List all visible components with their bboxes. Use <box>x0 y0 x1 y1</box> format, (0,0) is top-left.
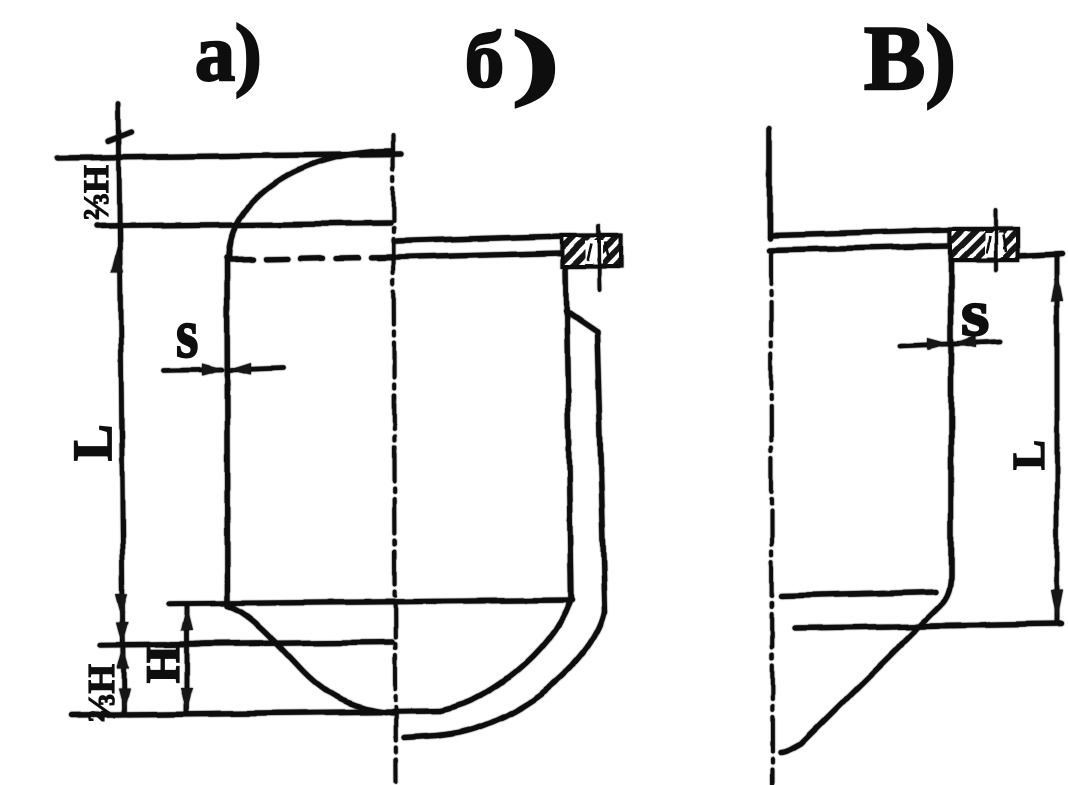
svg-text:б: б <box>465 16 504 103</box>
svg-text:L: L <box>1004 440 1054 470</box>
svg-text:В): В) <box>864 7 956 109</box>
svg-text:Н: Н <box>137 646 190 683</box>
svg-text:⅔Н: ⅔Н <box>76 165 116 220</box>
svg-text:⅔Н: ⅔Н <box>81 664 123 722</box>
svg-text:): ) <box>512 15 560 107</box>
svg-text:s: s <box>961 277 989 350</box>
svg-text:а): а) <box>195 10 262 98</box>
svg-text:s: s <box>176 295 198 373</box>
svg-text:L: L <box>62 424 123 461</box>
